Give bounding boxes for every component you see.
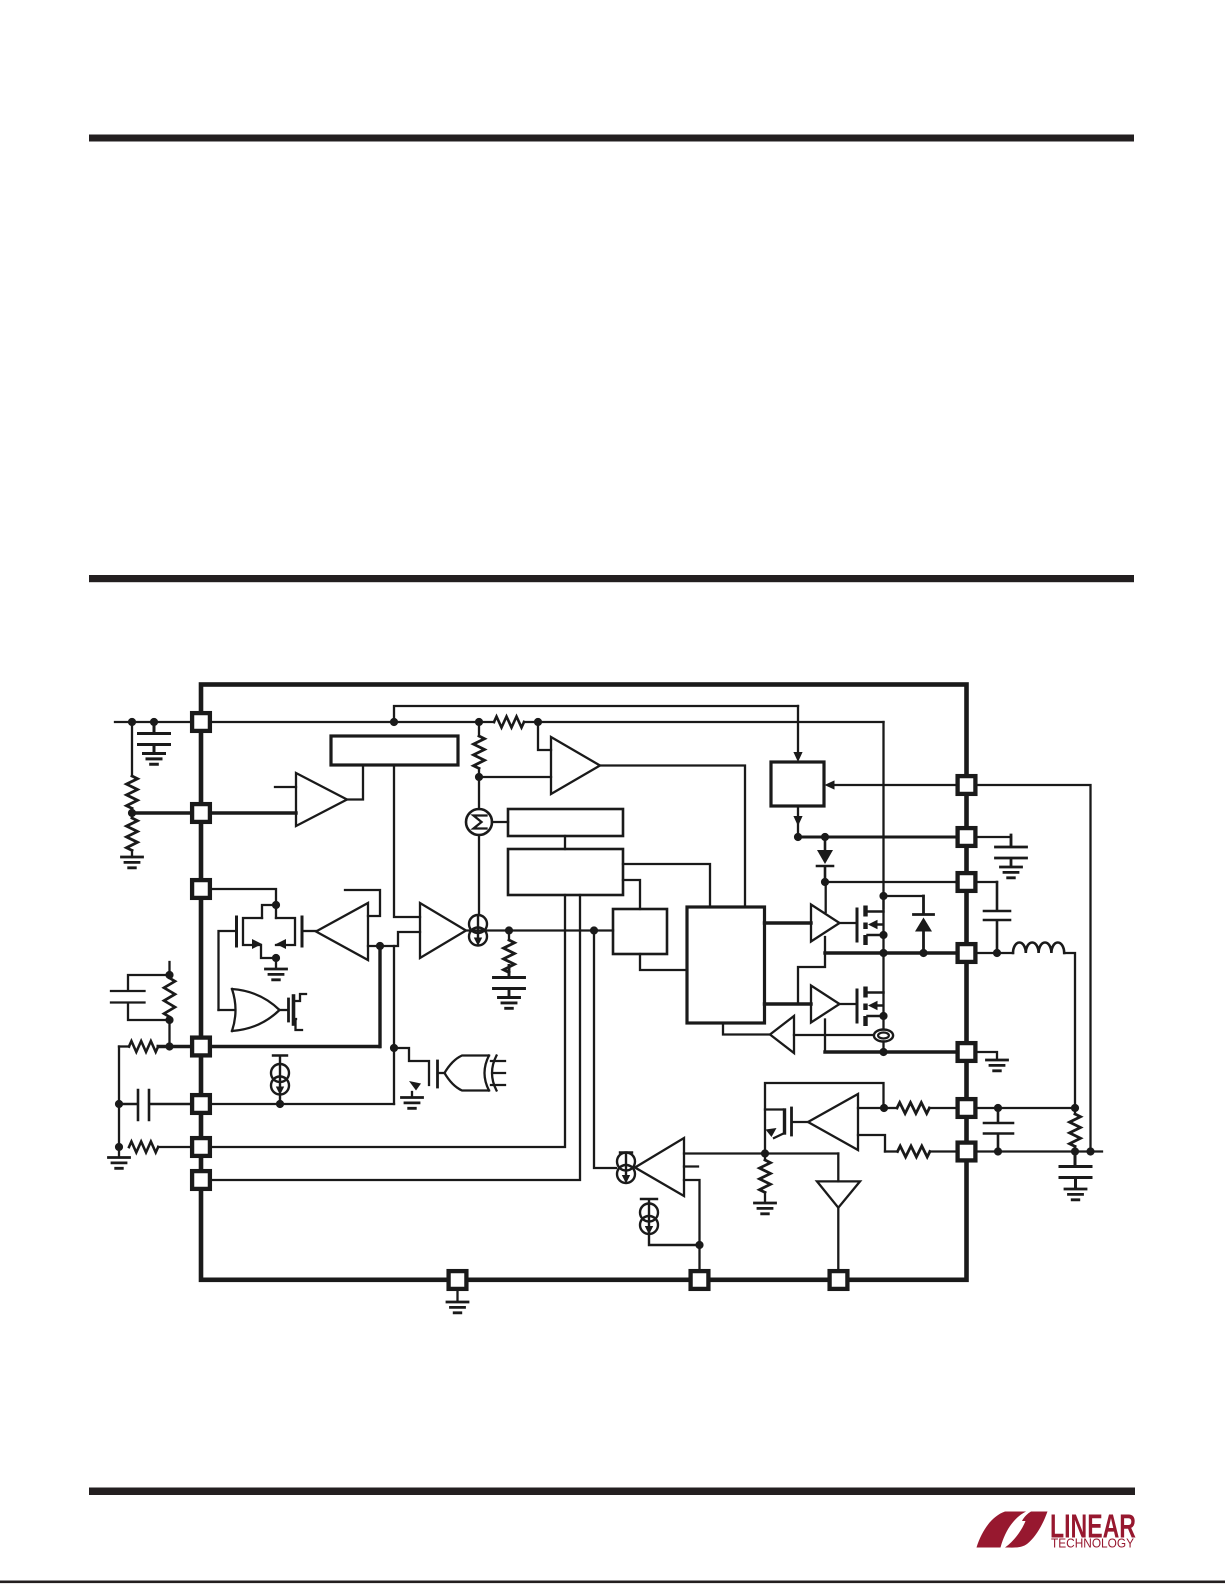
wire left down [118,1047,120,1105]
node dots out line [994,1147,1002,1155]
wire A2 plus input [538,722,551,750]
wire box to comparator [394,765,420,917]
resistor R4 (vertical at 479) [478,722,480,736]
svg-text:TECHNOLOGY: TECHNOLOGY [1051,1537,1135,1551]
wire phase rail [212,895,580,1180]
wire G1 top tap [825,882,827,912]
ground R2 [131,850,133,857]
pin 5 [192,1095,210,1113]
pin 12 (PGND) [958,1043,976,1061]
wire G1 to gate [840,922,856,924]
wire to pin2 [132,811,191,814]
wire A6 in1 [858,1107,884,1109]
node rail dot2 [821,833,829,841]
wire A5 out2 [684,1180,700,1245]
amp A4 (sense amp) [770,1016,794,1053]
node R7 dot [115,1143,123,1151]
pin 4 [192,1038,210,1056]
pin 6 [192,1138,210,1156]
wire boost rail [825,881,956,883]
node M1 source dot [879,931,887,939]
pin 14 [958,1143,976,1161]
resistor R10 [885,1150,898,1152]
buffer A7 (down) [837,1154,839,1182]
pin 2 [192,804,210,822]
node sync dot [390,1044,398,1052]
ground R7 [118,1147,120,1157]
or gate O1 [232,989,280,1031]
capacitor CIN to ground [139,722,170,765]
wire freq set rail [212,895,565,1147]
wire feedback [977,785,1090,1152]
arrow box E down [793,816,802,826]
inductor L1 [1013,942,1064,953]
arrow into box E right [825,780,835,789]
second rule [89,575,1134,582]
resistor R6 (ITH) [119,1045,129,1047]
wire A3 out [466,929,613,931]
wire sigma to box A [492,821,508,823]
amp A2 (error amp) [551,737,600,794]
wire sense to PGND [882,1042,884,1053]
node out dot2 [590,926,598,934]
pin 13 [958,1099,976,1117]
node SW dot2 [919,949,927,957]
summer sigma [466,809,492,835]
wire left gate [219,931,236,1010]
pin 16 [691,1271,709,1289]
wire A4 tip to logic [723,1023,770,1035]
resistor R3 top [494,717,524,728]
wire right gate to inverter [304,930,317,932]
wire mode down [378,946,381,1047]
gate hook I1 [345,890,380,916]
node VOS dot [761,1149,769,1157]
wire SW node [825,951,956,954]
resistor R1 [127,776,138,808]
wire divider [131,722,133,776]
node rail dot1 [794,833,802,841]
wire sigma link [478,777,480,809]
pin 17 [830,1271,848,1289]
wire to bottom pin [698,1245,700,1269]
top rule [89,135,1134,142]
resistor R5 [508,931,510,941]
wire O1 input [219,1009,235,1011]
wire INTVCC rail [798,836,956,839]
wire logic to G2 [765,1002,812,1005]
wire I1 out [368,932,420,946]
resistor R9 [884,1107,897,1109]
block box B (osc) [508,849,623,895]
resistor R2 [127,818,138,850]
wire inductor out [1064,953,1075,1114]
wire to boost diode [884,895,924,897]
amp A5 [635,1138,684,1196]
wire R7 to pin [158,1146,190,1148]
logo Linear Technology [977,1508,1137,1551]
wire A1 ref stub [275,786,296,788]
diode D1 [817,837,833,882]
pin 7 [192,1171,210,1189]
wire pin PGND ground [977,1052,997,1059]
wire logic to G1 [765,921,812,924]
capacitor C5 to ground [508,972,510,977]
wire sigma down [478,835,480,915]
node M2 source dot [879,1012,887,1020]
pin 11 (SW) [958,944,976,962]
wire pin5 rail [212,1103,394,1105]
wire to A2 minus [479,776,551,778]
ground PGND [987,1060,1008,1071]
node SW dot1 [879,949,887,957]
wire pin SGND [977,837,1011,846]
wire A1 out [347,765,363,800]
ground R8 [755,1203,776,1214]
node I1 out dot [376,942,384,950]
pin 3 [192,880,210,898]
wire osc to boxC [623,880,640,909]
wire A7 out [837,1208,839,1270]
mosfet at O1 [280,994,307,1030]
node SW dot3 [993,949,1001,957]
sense element (double ellipse) [874,1030,893,1042]
mosfet M2 [857,987,884,1027]
resistor R11 [1070,1114,1081,1146]
amp A1 (top left) [296,773,347,826]
node P3 dot [276,1100,284,1108]
block box A (freq) [508,809,623,836]
wire R2 top [131,813,133,818]
xor cluster [394,1048,505,1108]
block logic box [687,907,765,1023]
node R4 bottom [475,773,483,781]
wire VIN top [115,721,191,723]
resistor R7 [129,1142,158,1153]
node PGND dot [879,1048,887,1056]
node VOUT top dot [1071,1104,1079,1112]
wire pin7R right [977,1150,1102,1152]
wire PGND rail [825,1050,956,1053]
capacitor CB (boost) [984,882,1010,953]
wire G2 bottom tap [824,1020,826,1053]
wire A5 feed [594,931,616,1169]
node VIN dot2 [150,718,158,726]
wire VIN down right [882,722,884,909]
current source pair P3 [273,1056,287,1065]
node VIN dot1 [128,718,136,726]
stub A5 ref [684,1165,698,1167]
wire osc to logic [623,864,710,907]
comparator A3 [420,903,466,958]
wire M2 drain [882,953,884,1030]
ground bottom pin [456,1290,458,1302]
wire A6 in2 [858,1135,885,1152]
node VIN dot4 [534,718,542,726]
node divider mid [128,809,136,817]
capacitor C4 to ground [996,835,1027,878]
wire R6 to pin [158,1045,190,1048]
block box C [613,909,667,954]
wire boxC to logic [640,954,687,970]
node VIN dot3 [475,718,483,726]
current source pair P1 [469,915,487,946]
wire A-B link [564,836,566,849]
pmos M3 cluster [765,1083,884,1154]
pin 1 [192,713,210,731]
IC outline box [201,685,967,1280]
bottom thin rule [0,1581,1225,1584]
driver G2 [811,986,840,1023]
mosfet M1 [857,906,884,946]
wire ITH rail [212,1045,379,1048]
node VIN internal dot [390,718,398,726]
pin 9 [958,828,976,846]
wire G1 bottom tap [798,937,825,1004]
node ITH dot [165,1042,173,1050]
inverter I1 [316,903,368,960]
node FB dot [880,1104,888,1112]
pin 8 (right top) [958,776,976,794]
wire G2 gate link [840,1003,856,1005]
node D1 bottom [821,878,829,886]
pmos pair (top source switch) [212,889,302,980]
node out dot1 [505,926,513,934]
wire A5 out1 [684,1152,765,1154]
wire box E right input [829,784,956,786]
diode D2 (boost) [914,896,934,953]
wire pin boost [956,881,997,883]
current source pair P2 [620,1151,632,1154]
block UVLO box [331,736,458,765]
wire SW to inductor [977,952,1013,954]
capacitor C3 [984,1108,1013,1152]
wire sync down [393,946,395,1104]
arrow into box E [793,752,802,762]
wire box E down [797,806,799,837]
RC network (ITH comp) [111,962,175,1047]
capacitor COUT to ground [1060,1152,1091,1189]
wire A4 base to sense [794,1034,874,1036]
node cap left dot [115,1100,123,1108]
wire pin2 to A1 [212,811,296,814]
resistor R8 [764,1154,766,1161]
node drain dot [879,892,887,900]
wire osc feed down [797,706,799,756]
wire A2 out to logic [600,766,745,908]
wire VIN internal [212,721,884,723]
block box E [771,762,824,806]
pin 15 (GND bottom) [449,1271,467,1289]
wire left down 2 [118,1104,120,1147]
current source pair P4 [641,1199,657,1204]
wire M1 drain-source rail [882,896,884,953]
wire pin6R right [977,1107,1075,1109]
wire ref line [765,1152,838,1154]
bottom rule [89,1488,1135,1496]
node cap dot [994,1104,1002,1112]
pin 10 [958,873,976,891]
driver G1 [811,905,840,942]
amp A6 (big) [808,1094,858,1150]
capacitor C2 [119,1090,191,1120]
node P4 dot [695,1241,703,1249]
wire branch up [394,706,798,722]
